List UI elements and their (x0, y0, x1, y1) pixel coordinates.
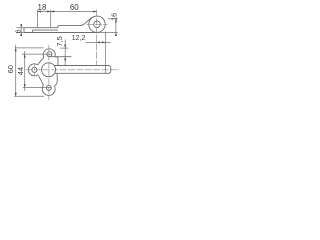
arrow dim18 right (47, 11, 51, 13)
front view: step up at boss (57, 26, 59, 28)
top view: bottom lobe hole (46, 85, 51, 90)
arrow dim6 bottom (20, 33, 22, 37)
dim 60: bottom extension line (14, 95, 44, 97)
front view: eye boss outer circle (89, 16, 105, 32)
svg-text:60: 60 (70, 3, 79, 12)
dim 18/60: middle extension line (50, 10, 52, 28)
dim 44: dimension line (24, 51, 26, 91)
arrow dim18 left (38, 11, 42, 13)
arrow dim60 left (51, 11, 55, 13)
top view: arm outline (54, 66, 111, 74)
dim 6: dimension line (20, 24, 22, 36)
top view: web edge line (50, 56, 71, 58)
dim 60: dimension line (15, 45, 17, 97)
arrow dim12,2 left (97, 41, 101, 43)
top view: fillet left to bottom lobe (38, 75, 44, 86)
arrow dim44 top (24, 54, 26, 58)
top view: left lobe hole (32, 67, 37, 72)
svg-text:6: 6 (16, 29, 23, 33)
top view: hub circle (42, 63, 56, 77)
arrow dim7,5 bottom (64, 57, 66, 61)
centerline: left hole vertical (33, 63, 35, 76)
svg-text:18: 18 (38, 3, 47, 12)
centerline: eye vertical and 60 right extension (96, 10, 98, 66)
top view: right side above arm (55, 57, 58, 66)
svg-text:44: 44 (16, 67, 25, 75)
front view: recess inner step (32, 30, 34, 32)
top view: top lobe hole (47, 52, 52, 57)
dim 12,2: right extension line (104, 32, 106, 74)
top view: left lobe arc (28, 64, 37, 76)
arrow dim44 bottom (24, 84, 26, 88)
dim 60: top extension line (15, 47, 44, 49)
top view: fillet top to left lobe (38, 58, 44, 65)
arrow dim16 bottom (115, 33, 117, 37)
dim 7,5: top tick line (60, 47, 68, 49)
top view: bottom lobe arc (42, 85, 55, 95)
arrow dim6 top (20, 24, 22, 28)
dim 6: bottom extension line (16, 32, 24, 34)
dim 18: left extension line (37, 10, 39, 28)
dim 16: top extension line (108, 18, 118, 20)
svg-text:12,2: 12,2 (72, 35, 86, 42)
front view: bar left end cap (23, 28, 25, 33)
centerline: flange vertical (48, 45, 50, 100)
front view: fillet into eye boss (79, 17, 94, 26)
arrow dim12,2 right (102, 41, 106, 43)
arrow dim60v bottom (15, 93, 17, 97)
dim 16: bottom extension line (97, 32, 118, 34)
arrow dim16 top (115, 19, 117, 23)
front view: recess inner edge (33, 29, 59, 31)
top view: top lobe arc (43, 49, 55, 58)
dim 16: dimension line (115, 19, 117, 36)
arrow dim60 right (93, 11, 97, 13)
front view: bar top edge right (58, 25, 79, 27)
dim 44: top extension line (22, 53, 52, 55)
arrow dim7,5 top (64, 45, 66, 49)
centerline: flange horizontal (26, 69, 120, 71)
front view: eye hole circle (94, 21, 101, 28)
dim 44: bottom extension line (23, 87, 52, 89)
dim 12,2: dimension line (86, 41, 111, 43)
dim 18/60: dimension line (38, 11, 97, 13)
svg-text:7,5: 7,5 (55, 36, 64, 46)
dim 6: top extension line (16, 27, 24, 29)
front view: bar bottom edge (24, 32, 97, 34)
arrow dim60v top (15, 48, 17, 52)
svg-text:60: 60 (6, 65, 15, 73)
front view: bar top edge left (24, 27, 58, 29)
svg-text:16: 16 (111, 13, 118, 21)
dim 7,5: dimension line (64, 40, 66, 66)
centerline: eye horizontal (87, 23, 108, 25)
top view: right side below arm (55, 73, 58, 86)
